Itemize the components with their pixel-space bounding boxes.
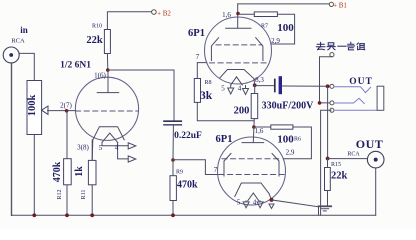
jack sleeve body [377,86,384,110]
U1 grid (dashed) [76,110,139,112]
svg-text:22k: 22k [331,171,348,182]
resistor R6 100 [254,125,312,159]
svg-text:1,6: 1,6 [255,127,264,135]
svg-text:R8: R8 [204,80,211,86]
svg-text:7: 7 [196,53,200,61]
svg-text:100k: 100k [27,95,38,117]
resistor R12 470k [52,111,71,215]
svg-text:0.22uF: 0.22uF [174,131,202,141]
svg-text:OUT: OUT [349,77,373,87]
svg-text:R12: R12 [57,189,63,199]
potentiometer RP 100k [27,81,48,135]
svg-text:1,6: 1,6 [222,11,231,19]
V1 screen grid (dashed) [216,44,262,46]
svg-text:7: 7 [214,166,218,174]
resistor R10 22k [86,24,110,54]
svg-text:5: 5 [221,85,225,93]
node ring junction [318,101,322,105]
svg-text:100: 100 [277,134,294,146]
V2 heater pin 5 [245,201,247,202]
jack tip contact [334,87,371,93]
node rail R11 [90,213,94,217]
resistor R15 22k [325,159,348,206]
node cathode of V2 [270,198,274,202]
V1 heater pin 4 [245,86,247,89]
node rail R12 [65,213,69,217]
svg-text:in: in [20,25,28,35]
svg-text:+ B2: + B2 [157,10,171,18]
V1 cathode lead [253,79,256,86]
svg-text:R6: R6 [294,137,301,143]
terminal B2 [152,10,157,15]
svg-text:2(7): 2(7) [60,102,72,110]
wire plate node to coupling cap [108,70,174,121]
V2 beam plate left [224,154,231,177]
V1 beam plate right [256,38,263,61]
resistor R11 1k [74,140,96,215]
node rail R9 [171,213,175,217]
svg-text:1/2 6N1: 1/2 6N1 [60,61,91,71]
RCA output jack J2 [367,151,384,168]
terminal to-other-channel [330,53,334,57]
V1 control grid (dashed) [210,62,267,64]
svg-text:1k: 1k [74,166,85,177]
wire sleeve to ground [321,110,331,215]
V2 heater pin 4 [259,201,261,202]
pentode V1 6P1 (upper) envelope [205,17,272,84]
svg-text:RCA: RCA [347,152,360,158]
svg-text:330uF/200V: 330uF/200V [262,101,314,112]
wire grid node to lower 6P1 grid [173,160,219,175]
node cathode of V1 [253,83,257,87]
wire cap bottom to grid node [172,126,174,161]
svg-text:2,9: 2,9 [286,149,295,157]
svg-text:+ B1: + B1 [333,2,347,10]
svg-text:4: 4 [238,85,242,93]
V1 plate [226,4,251,28]
U1 heater pin 5 lead and arrow [102,142,128,145]
svg-text:4: 4 [115,144,119,152]
U1 heater pin 4 lead and arrow [118,142,129,159]
svg-text:8,3: 8,3 [255,76,264,84]
svg-text:RCA: RCA [11,38,25,45]
svg-text:4: 4 [253,199,257,207]
svg-text:5: 5 [237,199,241,207]
V1 cathode [220,70,254,79]
capacitor C1 0.22uF [164,121,181,125]
V1 heater pin 5 [230,85,232,88]
V2 beam plate right [272,154,279,177]
svg-text:5: 5 [99,144,103,152]
resistor R 200 [234,85,258,127]
resistor R9 470k [170,160,198,215]
capacitor C2 330uF/200V [255,78,328,93]
wire R10 top to B2 [107,12,151,30]
V2 control grid (dashed) [219,174,284,176]
svg-text:22k: 22k [86,35,103,46]
wire wiper to 6N1 grid [48,110,76,112]
node plate/R7 tap [236,12,240,16]
svg-text:6P1: 6P1 [188,28,205,39]
svg-text:OUT: OUT [356,137,384,151]
node plate of U1 [106,68,110,72]
wire RCA-in ground down [11,63,13,215]
svg-text:470k: 470k [177,180,198,191]
jack ring contact [334,98,364,103]
V2 cathode lead [269,194,272,200]
svg-text:3(8): 3(8) [77,144,89,152]
svg-text:100: 100 [277,22,294,34]
wire V2 cathode to ground column [272,200,319,215]
svg-text:3k: 3k [200,90,213,102]
ground rail [12,214,376,216]
wire R10 bottom to plate node [106,54,108,71]
node SRPP midpoint [252,125,256,129]
node grid junction dot [65,109,69,113]
svg-text:1(6): 1(6) [94,72,106,80]
terminal B1 [329,2,333,6]
headphone jack contacts [330,84,334,88]
V2 heater filament [248,193,259,201]
V2 plate [242,127,264,143]
svg-text:200: 200 [234,106,250,117]
wire pot bottom to ground rail [33,135,35,216]
V1 heater filament [231,77,243,85]
svg-text:470k: 470k [52,161,63,182]
triode U1 1/2 6N1 envelope [75,77,138,140]
Chinese label: to the other channel [316,42,364,50]
wire other-channel down to ring contact [320,57,332,103]
pentode V2 6P1 (lower) envelope [218,137,286,205]
wiper arrow of RP [42,106,48,114]
resistor R8 3k [194,63,254,121]
wire RCA-in to pot top [19,53,34,80]
svg-text:6P1: 6P1 [216,134,233,145]
wire to RCA out [328,158,368,160]
V2 screen grid (dashed) [222,158,281,160]
ground [319,206,332,211]
node grid of lower 6P1 [171,158,175,162]
wire output column down [327,86,329,158]
node output junction [326,84,330,88]
RCA input jack J1 [3,47,19,63]
U1 cathode lead to R11 [91,140,94,161]
resistor R7 100 [238,12,295,44]
pin 3 arrow of V2 [269,204,274,209]
node R15 top [326,157,330,161]
jack sleeve line [334,109,377,111]
svg-text:2,9: 2,9 [271,37,280,45]
wire RCA out down to rail [375,168,377,215]
svg-text:R7: R7 [261,24,268,30]
wire B1 rail [238,3,330,5]
svg-text:R9: R9 [176,170,183,176]
svg-text:R11: R11 [81,190,87,200]
U1 cathode [93,127,124,140]
U1 plate [97,70,119,93]
U1 heater filament [102,133,118,142]
svg-text:R15: R15 [331,162,341,168]
node rail pot [32,213,36,217]
svg-text:R10: R10 [92,24,102,30]
V1 beam plate left [211,38,218,61]
V2 cathode [235,183,269,197]
